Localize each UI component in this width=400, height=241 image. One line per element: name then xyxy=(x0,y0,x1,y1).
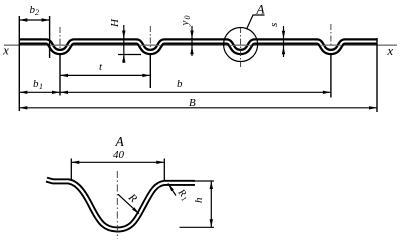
detail sheet outer stroke xyxy=(47,180,196,230)
dimension b2 xyxy=(19,19,49,21)
svg-text:0: 0 xyxy=(183,16,192,20)
detail 40 right extension xyxy=(163,159,165,181)
b2 right extension line xyxy=(49,16,51,58)
dimension H xyxy=(123,25,125,63)
svg-text:x: x xyxy=(2,44,9,58)
centerline dip2 xyxy=(149,26,151,50)
H reference line xyxy=(118,54,141,56)
svg-text:b: b xyxy=(177,78,183,90)
centerline dip1 xyxy=(59,27,61,50)
svg-text:t: t xyxy=(99,61,103,73)
svg-text:H: H xyxy=(109,18,121,28)
dimension b xyxy=(60,91,331,93)
svg-text:s: s xyxy=(268,23,280,27)
extension below dip4 xyxy=(330,54,332,98)
centerline dip4 xyxy=(330,24,332,47)
svg-text:2: 2 xyxy=(35,8,39,17)
dimension b1 xyxy=(19,91,60,93)
axis crossing dip1 xyxy=(49,44,71,46)
svg-text:40: 40 xyxy=(113,149,125,161)
h top reference line xyxy=(193,180,215,182)
label R xyxy=(125,191,139,205)
dimension y0 xyxy=(191,26,193,56)
svg-text:x: x xyxy=(387,44,394,58)
label y0 xyxy=(179,16,192,27)
radius R1 leader xyxy=(168,183,176,195)
axis crossing dip4 xyxy=(320,44,342,46)
detail centerline xyxy=(116,171,118,239)
sheet profile outer stroke xyxy=(19,42,377,53)
extension below dip2 xyxy=(149,54,151,88)
detail callout leader xyxy=(247,15,265,29)
dimension B xyxy=(19,107,377,109)
svg-text:1: 1 xyxy=(39,82,43,91)
centerline dip3 xyxy=(240,27,242,67)
dimension h xyxy=(210,181,212,227)
svg-text:B: B xyxy=(189,97,196,109)
dimension t xyxy=(60,74,150,76)
label R1 xyxy=(174,187,191,204)
svg-text:A: A xyxy=(256,1,265,16)
dimension 40 xyxy=(71,161,164,163)
detail 40 left extension xyxy=(70,159,72,181)
radius R leader xyxy=(118,194,139,214)
axis x-x line xyxy=(4,44,397,46)
axis crossing dip2 xyxy=(139,44,161,46)
extension below dip1 xyxy=(59,54,61,96)
detail callout circle xyxy=(224,28,258,62)
svg-text:h: h xyxy=(193,197,205,203)
left outer extension line xyxy=(18,16,20,111)
dimension s xyxy=(283,26,285,57)
h bottom reference line xyxy=(180,226,215,228)
svg-text:A: A xyxy=(115,134,125,149)
sheet profile inner white gap xyxy=(19,42,377,53)
svg-text:y: y xyxy=(179,21,191,27)
axis crossing dip3 xyxy=(230,44,252,46)
right outer extension line xyxy=(376,38,378,112)
detail sheet inner white gap xyxy=(47,180,196,230)
